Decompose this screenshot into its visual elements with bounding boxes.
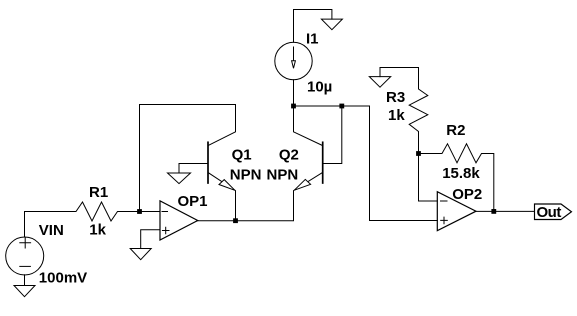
svg-text:OP1: OP1 [178,193,208,210]
svg-text:1k: 1k [89,221,106,238]
svg-text:VIN: VIN [39,222,64,239]
svg-text:Q1: Q1 [232,147,252,164]
svg-text:100mV: 100mV [39,270,87,287]
svg-text:15.8k: 15.8k [442,165,480,182]
svg-text:R2: R2 [446,122,465,139]
svg-text:NPN: NPN [230,167,262,184]
svg-text:Q2: Q2 [279,147,299,164]
svg-text:10µ: 10µ [307,79,332,96]
svg-text:R1: R1 [89,184,108,201]
svg-text:1k: 1k [388,107,405,124]
svg-text:OP2: OP2 [452,186,482,203]
svg-text:Out: Out [537,204,562,221]
svg-text:NPN: NPN [267,167,299,184]
svg-text:R3: R3 [386,89,405,106]
svg-text:I1: I1 [306,30,319,47]
